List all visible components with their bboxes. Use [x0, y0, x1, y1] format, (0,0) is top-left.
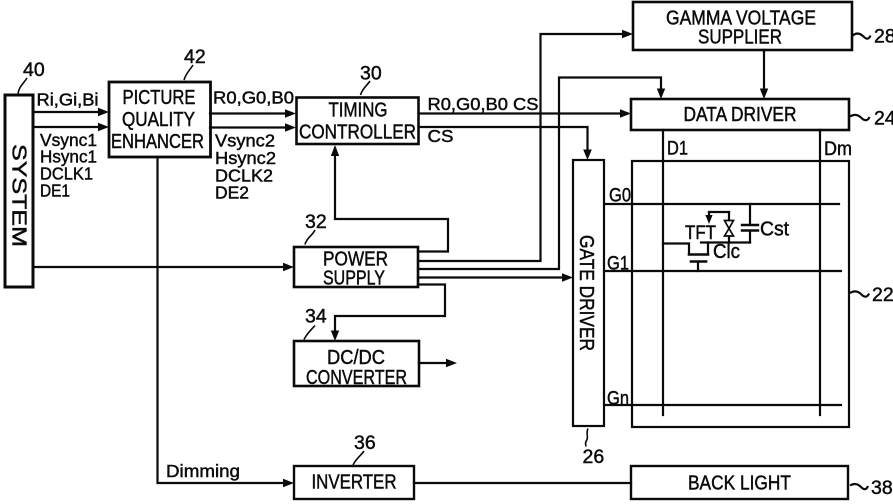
- TFT gate bar: [691, 260, 706, 263]
- wire POWER SUPPLY to GAMMA: [418, 34, 624, 261]
- svg-text:CONTROLLER: CONTROLLER: [299, 122, 416, 144]
- block GAMMA VOLTAGE SUPPLIER (28): [633, 2, 852, 50]
- wire SYSTEM to PQE line1: [33, 111, 100, 113]
- wire POWER SUPPLY to DATA DRIVER: [418, 78, 661, 270]
- arrow into GAMMA left: [622, 30, 633, 38]
- svg-text:SYSTEM: SYSTEM: [8, 144, 30, 247]
- wire data line D1: [662, 130, 664, 415]
- svg-text:D1: D1: [667, 139, 688, 160]
- svg-text:DE2: DE2: [215, 183, 249, 203]
- tick 34: [304, 326, 315, 340]
- wire SYSTEM to POWER SUPPLY: [33, 266, 285, 268]
- wire POWER SUPPLY to GATE DRIVER: [418, 276, 564, 278]
- arrow into PQE line1: [98, 108, 109, 116]
- wire Dimming PQE to INVERTER: [158, 157, 286, 483]
- svg-text:40: 40: [23, 59, 45, 81]
- arrow into POWER SUPPLY left: [283, 263, 294, 271]
- arrow into DC/DC top: [331, 331, 339, 342]
- svg-text:24: 24: [874, 108, 893, 130]
- svg-text:DE1: DE1: [40, 181, 70, 201]
- tick 32: [305, 230, 315, 245]
- svg-text:R0,G0,B0 CS: R0,G0,B0 CS: [428, 94, 539, 114]
- tick 36: [353, 451, 364, 465]
- wire POWER SUPPLY to TIMING: [335, 156, 448, 252]
- svg-text:CONVERTER: CONVERTER: [306, 367, 407, 389]
- svg-text:30: 30: [360, 63, 382, 85]
- tick 30: [361, 81, 371, 95]
- block DATA DRIVER (24): [631, 99, 849, 130]
- pixel node top wire: [709, 211, 729, 213]
- svg-text:22: 22: [872, 284, 893, 306]
- block GATE DRIVER (26): [573, 160, 604, 426]
- svg-text:SUPPLIER: SUPPLIER: [698, 27, 782, 49]
- capacitor Cst top stub: [749, 204, 751, 224]
- arrow TFT pixel source: [705, 215, 712, 224]
- block display panel (22): [632, 161, 849, 427]
- svg-text:28: 28: [874, 26, 893, 48]
- svg-text:TIMING: TIMING: [329, 100, 388, 122]
- svg-text:36: 36: [354, 432, 376, 454]
- wire PQE to TIMING line1: [210, 112, 287, 114]
- TFT drain lead from D1: [663, 244, 689, 254]
- wire gate line G1: [605, 270, 841, 272]
- block PICTURE QUALITY ENHANCER (42): [109, 82, 211, 157]
- svg-text:32: 32: [305, 211, 327, 233]
- svg-text:TFT: TFT: [685, 223, 716, 244]
- block INVERTER (36): [294, 466, 414, 499]
- capacitor Cst bottom stub: [749, 232, 751, 243]
- svg-text:26: 26: [583, 446, 605, 468]
- block SYSTEM (40): [5, 95, 33, 287]
- block POWER SUPPLY (32): [294, 247, 418, 287]
- arrow CS into GATE DRIVER top: [583, 150, 592, 161]
- svg-text:ENHANCER: ENHANCER: [111, 131, 204, 153]
- arrow into TIMING bottom: [331, 145, 339, 156]
- capacitor Clc top stub: [728, 212, 730, 221]
- svg-text:BACK LIGHT: BACK LIGHT: [688, 473, 791, 495]
- arrow into GATE DRIVER left: [562, 273, 573, 281]
- wire GAMMA to DATA DRIVER: [763, 50, 765, 90]
- wire PQE to TIMING line2: [210, 126, 287, 128]
- wire SYSTEM to PQE line2: [33, 126, 100, 128]
- arrowheads: [98, 30, 768, 487]
- label ticks: [18, 65, 588, 465]
- wire gate line Gn: [605, 404, 841, 406]
- tick 42: [184, 65, 193, 80]
- TFT source arrow stub: [708, 212, 710, 215]
- arrow into DATA DRIVER top: [657, 89, 665, 100]
- svg-text:GATE DRIVER: GATE DRIVER: [575, 235, 597, 351]
- wire DC/DC output: [419, 362, 447, 364]
- svg-text:G1: G1: [607, 254, 629, 275]
- svg-text:38: 38: [871, 477, 893, 499]
- TFT source lead: [707, 243, 709, 255]
- capacitor Clc bottom stub: [728, 236, 730, 243]
- tick 40: [18, 78, 27, 94]
- arrow GAMMA into DATA DRIVER top: [760, 89, 768, 100]
- svg-text:CS: CS: [428, 126, 454, 146]
- svg-text:G0: G0: [609, 186, 631, 207]
- capacitor Clc hourglass symbol: [725, 221, 734, 237]
- capacitor Cst plates: [742, 225, 758, 231]
- tilde connectors: [850, 34, 871, 490]
- svg-text:Dm: Dm: [824, 139, 852, 160]
- TFT channel bar: [689, 253, 708, 256]
- arrow into TIMING line2: [285, 123, 296, 131]
- svg-text:Dimming: Dimming: [166, 461, 240, 481]
- wire TIMING CS to GATE DRIVER: [419, 127, 588, 151]
- svg-text:Cst: Cst: [760, 219, 789, 241]
- tilde for 38: [850, 484, 868, 489]
- wire data line Dm: [819, 130, 821, 415]
- arrow DC/DC output: [446, 359, 457, 367]
- wire gate line G0: [605, 203, 839, 205]
- svg-text:Ri,Gi,Bi: Ri,Gi,Bi: [37, 90, 99, 110]
- svg-text:Clc: Clc: [713, 241, 740, 263]
- arrow into DATA DRIVER left: [620, 109, 631, 117]
- svg-text:DC/DC: DC/DC: [327, 347, 385, 369]
- svg-text:34: 34: [305, 306, 327, 328]
- block BACK LIGHT (38): [631, 466, 848, 499]
- tilde for 28: [852, 34, 871, 39]
- svg-text:INVERTER: INVERTER: [312, 472, 397, 494]
- svg-text:SUPPLY: SUPPLY: [323, 268, 385, 290]
- svg-text:Gn: Gn: [607, 389, 629, 410]
- pixel node bottom wire: [701, 241, 750, 243]
- arrow into PQE line2: [98, 123, 109, 131]
- block TIMING CONTROLLER (30): [297, 98, 419, 145]
- block DC/DC CONVERTER (34): [294, 341, 419, 386]
- svg-text:42: 42: [184, 46, 206, 68]
- arrow into INVERTER left: [283, 479, 294, 487]
- tilde for 22: [850, 291, 869, 296]
- arrow into TIMING line1: [285, 109, 296, 117]
- tick 26: [585, 429, 588, 447]
- tilde for 24: [850, 115, 870, 120]
- svg-text:PICTURE: PICTURE: [123, 87, 196, 109]
- wire POWER SUPPLY to DC/DC: [335, 285, 445, 333]
- wire TIMING to DATA DRIVER (R0,G0,B0 CS): [419, 112, 622, 114]
- wire INVERTER to BACK LIGHT: [414, 482, 631, 484]
- TFT gate stub to G1: [697, 262, 699, 271]
- svg-text:R0,G0,B0: R0,G0,B0: [213, 88, 294, 108]
- svg-text:DATA DRIVER: DATA DRIVER: [684, 104, 797, 126]
- svg-text:QUALITY: QUALITY: [122, 109, 195, 131]
